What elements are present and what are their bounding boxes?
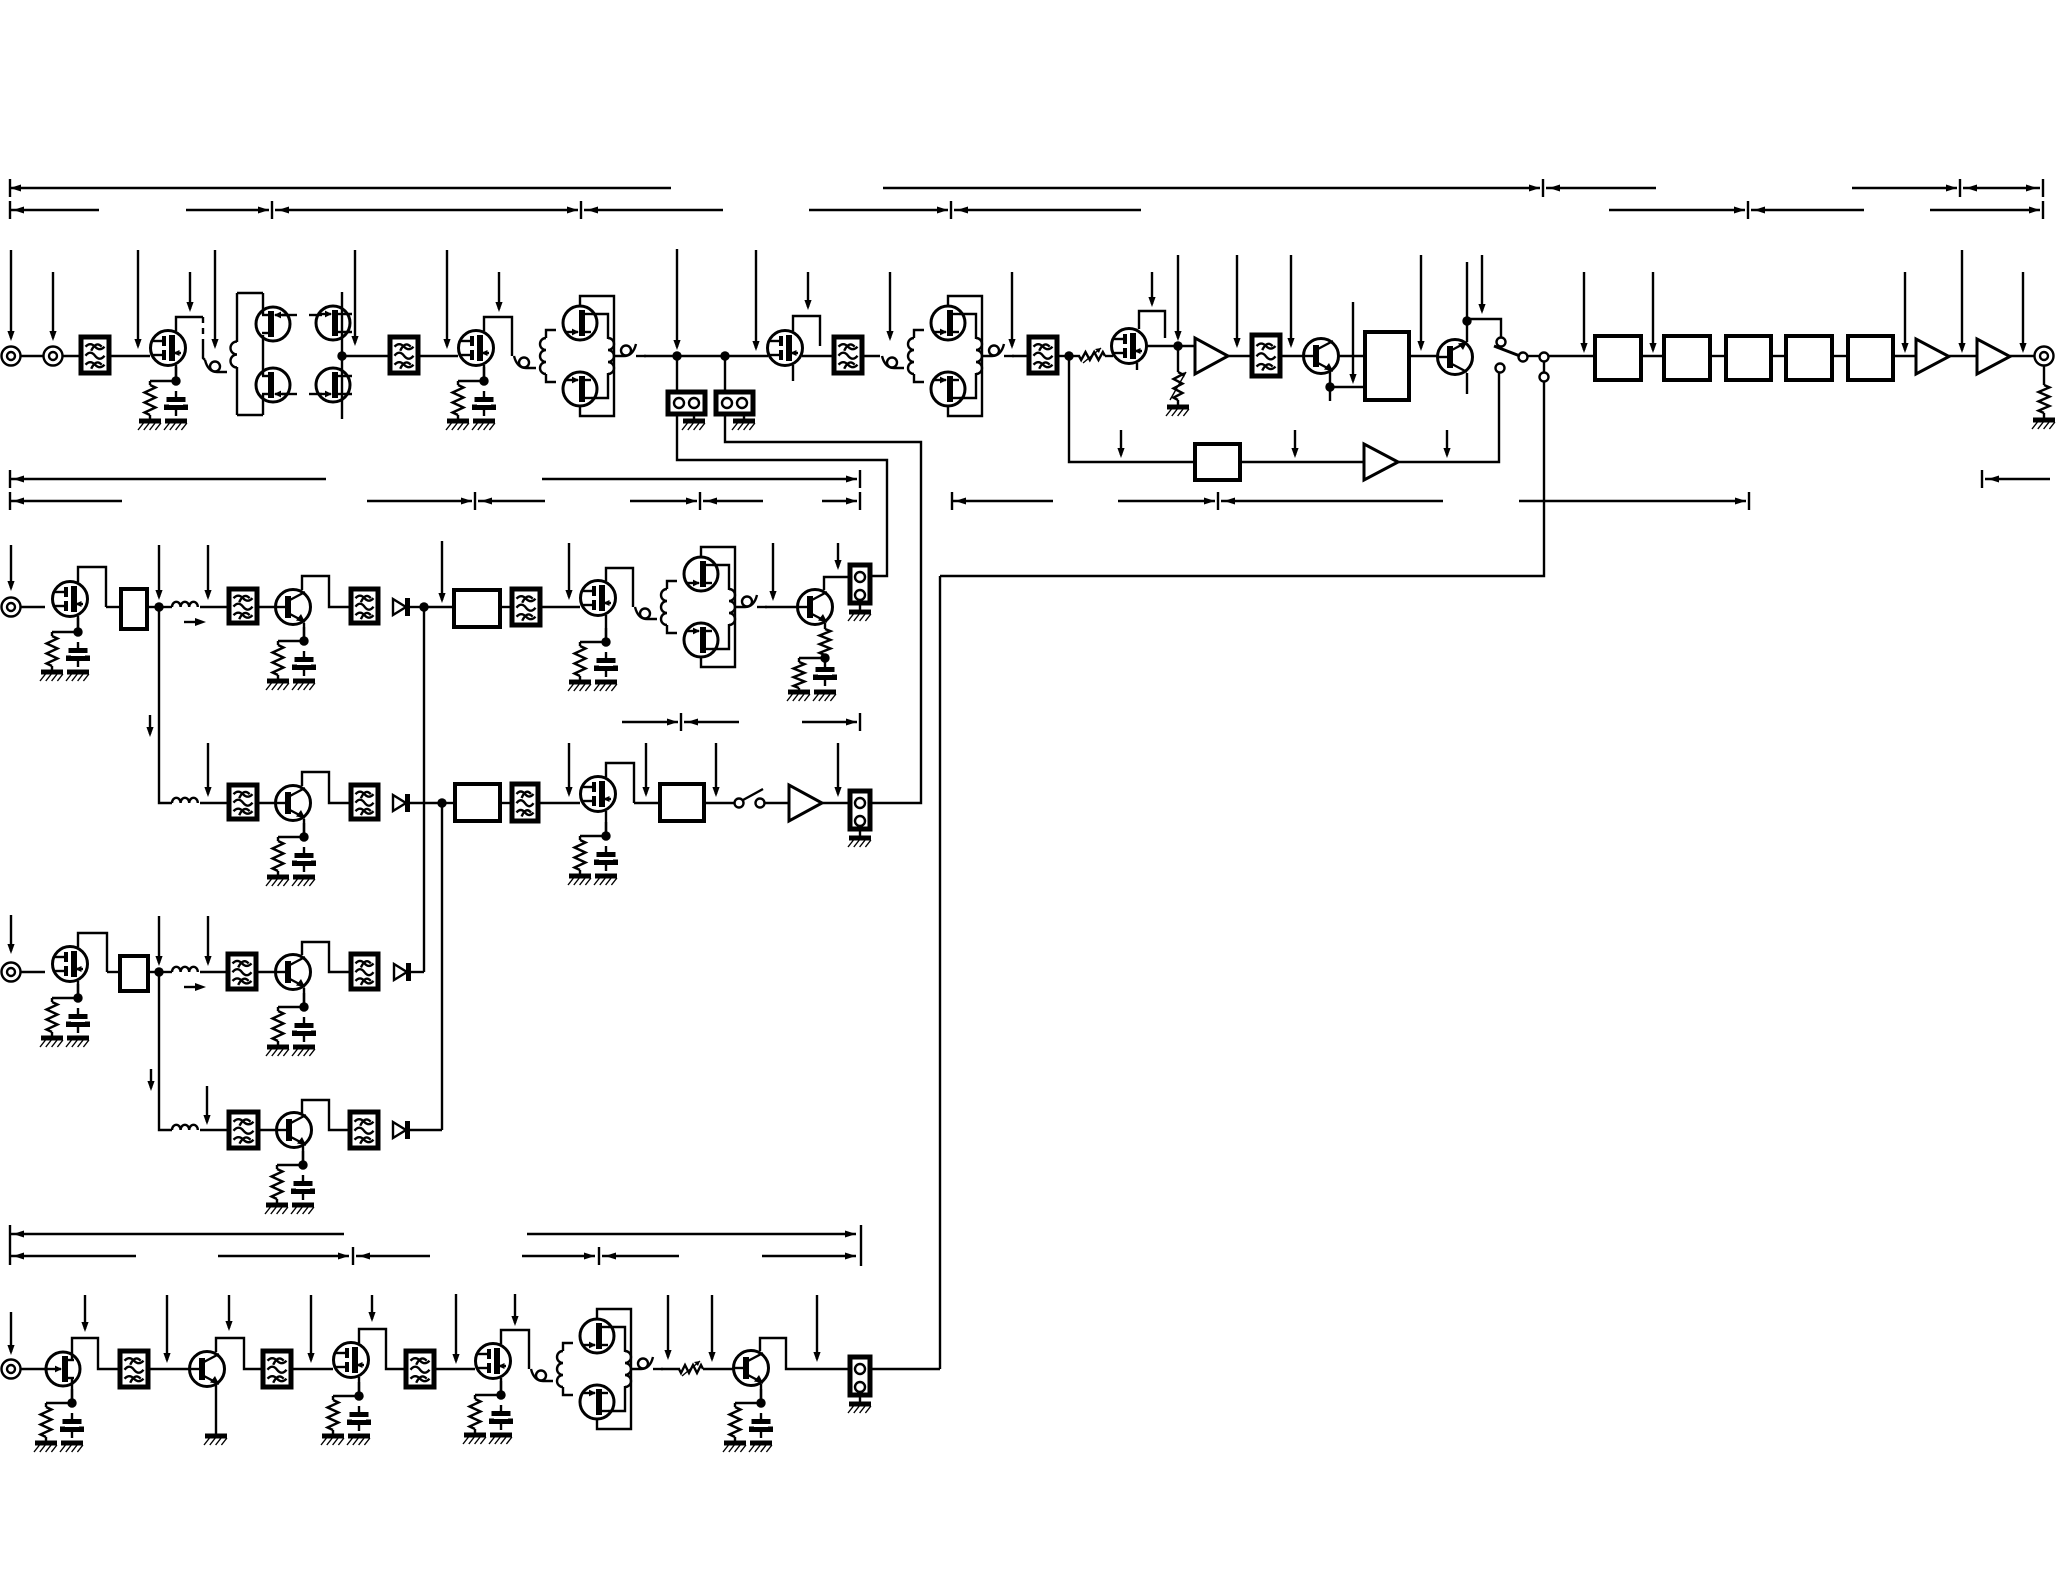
wire T21 outer loop: [597, 1309, 631, 1429]
bandpass filter FL18: [406, 1351, 434, 1387]
wire Q20 source: [71, 1386, 73, 1402]
dimension line: [275, 209, 578, 211]
node 11 bias junction: [67, 1398, 76, 1407]
leader arrow: [186, 272, 193, 312]
ground 7a: [568, 876, 591, 885]
transistor Q9 (AF amp): [1438, 340, 1473, 375]
arrow: [846, 719, 857, 726]
wire FL4 to node C: [1057, 355, 1069, 357]
wire J1 to J2: [21, 355, 44, 357]
wire Q6a drain to T6out: [959, 314, 976, 339]
wire B1 to B2: [1641, 355, 1664, 357]
dimension tick: [271, 201, 273, 219]
node E: [1462, 316, 1471, 325]
node B: [720, 351, 729, 360]
wire Q21a drain to T21out: [608, 1327, 625, 1352]
resistor R10 (variable): [1079, 348, 1105, 363]
arrow: [13, 498, 24, 505]
bandpass filter FL1: [81, 337, 109, 373]
wire Q17 drain: [78, 933, 107, 972]
wire Q25 collector to P7: [760, 1338, 850, 1369]
wire Q14 emitter to R: [824, 623, 826, 629]
dimension tick: [474, 492, 476, 510]
mixer quad left winding bracket: [237, 293, 263, 415]
dimension line: [367, 500, 472, 502]
bandpass filter FL3: [834, 337, 862, 373]
leader arrow: [1174, 255, 1181, 341]
leader arrow 4-7: [511, 1294, 518, 1326]
bandpass filter FL12: [228, 954, 256, 989]
wire FL1 to Q1: [109, 355, 150, 357]
arrow: [10, 185, 21, 192]
wire node F down to 2B chain: [159, 607, 172, 803]
dimension line: [10, 1255, 136, 1257]
leader arrow: [1580, 272, 1587, 353]
arrow: [845, 1253, 856, 1260]
bandpass filter FL10: [351, 785, 378, 819]
wire FL17 to Q22: [291, 1368, 333, 1370]
dimension tick: [859, 470, 861, 488]
transformer T13out secondary coil: [735, 595, 757, 607]
node Q8 emitter: [1325, 382, 1334, 391]
arrow: [258, 207, 269, 214]
wire TX vertical bus: [939, 576, 941, 1369]
JFET Q21a (push-pull upper): [580, 1319, 614, 1353]
transformer T4out secondary coil: [614, 344, 636, 356]
leader arrow: [1148, 272, 1155, 307]
resistor R11 (variable): [1170, 372, 1186, 400]
transformer T6out secondary coil: [982, 344, 1004, 356]
arrow: [1224, 498, 1235, 505]
wire 8 resistor to ground: [51, 1032, 53, 1038]
dual-gate MOSFET Q17: [53, 947, 88, 982]
wire node I down to 3B chain: [159, 972, 172, 1130]
wire Q10 drain: [78, 567, 106, 607]
wire Q5 bias stub: [793, 316, 820, 346]
switch S1 lever: [1494, 346, 1520, 356]
switch S1 contact b: [1496, 364, 1505, 373]
leader arrow: [1443, 430, 1450, 458]
wire Q12 drain to T7: [606, 568, 633, 607]
wire T13 to Q13a gate: [667, 581, 677, 589]
bandpass filter FL15: [350, 1112, 378, 1148]
dimension line: [1963, 187, 2040, 189]
diode D1 (doubler): [393, 598, 408, 616]
wire 4 resistor lead: [277, 641, 279, 645]
arrow: [338, 1253, 349, 1260]
dimension line: [1930, 209, 2040, 211]
wire T6 to Q6a gate: [914, 330, 924, 338]
transformer T6out right winding: [976, 338, 982, 374]
wire Q22 source: [358, 1377, 360, 1395]
ground 8b: [66, 1038, 89, 1047]
wire P1 to P5 (1st LO feed): [677, 414, 887, 576]
wire FL18 to Q23: [434, 1368, 475, 1370]
block B11: [120, 956, 148, 991]
diode D4: [393, 1121, 408, 1139]
coax connector J3 (AF out): [2035, 347, 2054, 366]
dimension line: [703, 500, 763, 502]
leader arrow 2B-4: [712, 743, 719, 797]
wire node H to row3B diode: [441, 803, 443, 1130]
coax connector J4 (LO1 in): [2, 598, 21, 617]
JFET Q21b (push-pull lower): [580, 1385, 614, 1419]
arrow: [706, 498, 717, 505]
arrow: [359, 1253, 370, 1260]
wire B5 to A2: [1893, 355, 1916, 357]
dimension line: [602, 1255, 679, 1257]
transformer T6 primary coil: [882, 356, 904, 368]
JFET Q13a (push-pull upper): [684, 557, 718, 591]
block B6 (squelch): [1195, 444, 1240, 480]
bandpass filter FL2: [390, 337, 418, 373]
wire T6out to FL4: [1012, 355, 1029, 357]
capacitor C12: [350, 1406, 369, 1431]
wire 10 resistor lead: [276, 1165, 278, 1169]
ground 14a: [723, 1443, 746, 1452]
wire node C to B6: [1069, 356, 1195, 462]
capacitor C10: [294, 1175, 313, 1200]
leader arrow J6: [7, 1312, 14, 1355]
arrow: [2026, 185, 2037, 192]
wire FL2 to Q3: [418, 355, 458, 357]
arrow: [13, 207, 24, 214]
wire T13 outer loop: [701, 547, 735, 667]
arrow: [605, 1253, 616, 1260]
wire 11 resistor lead: [45, 1403, 47, 1407]
leader arrow 4-5: [368, 1295, 375, 1322]
dimension line: [1751, 209, 1864, 211]
wire 14 resistor to ground: [734, 1437, 736, 1443]
wire Q19 collector: [302, 1100, 350, 1130]
wire Q15 collector: [302, 772, 351, 803]
dimension tick: [9, 179, 11, 197]
ground 6b: [292, 877, 315, 886]
wire D1 to node G: [409, 606, 424, 608]
dimension line: [584, 209, 723, 211]
bandpass filter FL9: [229, 785, 257, 819]
wire node E to switch S1: [1467, 319, 1501, 337]
wire L3 to FL12: [200, 971, 228, 973]
resistor R5: [575, 646, 586, 676]
ground P6: [848, 838, 871, 847]
diode D2: [393, 794, 408, 812]
resistor R1: [145, 385, 156, 415]
block B1: [1595, 336, 1641, 380]
wire Q2b gate: [282, 393, 297, 395]
wire node to R21: [799, 657, 825, 659]
capacitor C1: [167, 391, 186, 416]
wire B7 to node F: [147, 606, 159, 608]
wire node A to connector P1: [676, 356, 678, 392]
node 14 bias junction: [756, 1398, 765, 1407]
wire Q20 channel leads: [71, 1351, 73, 1386]
wire Q9 collector stub: [1466, 373, 1468, 394]
connector P5: [850, 565, 870, 603]
transistor Q19: [277, 1113, 312, 1148]
transistor Q15: [276, 786, 311, 821]
wire 11 resistor to ground: [45, 1437, 47, 1443]
leader arrow: [804, 272, 811, 310]
leader arrow: [134, 250, 141, 349]
node Q14 bias: [820, 653, 829, 662]
wire T13 to Q13b gate: [667, 625, 677, 633]
leader arrow: [2019, 272, 2026, 353]
leader arrow: [438, 541, 445, 603]
mixer JFET Q2a: [256, 307, 290, 341]
wire Q7 bias stub: [1139, 311, 1165, 338]
leader arrow 3B-1: [203, 1086, 210, 1125]
ground 3a: [40, 672, 63, 681]
wire T4out to node A: [644, 355, 677, 357]
wire Q21b drain to T21out: [608, 1386, 625, 1411]
arrow: [2029, 207, 2040, 214]
transistor Q21: [190, 1352, 225, 1387]
wire A2 to A3: [1949, 355, 1977, 357]
arrow: [1204, 498, 1215, 505]
wire node C to R10: [1069, 355, 1080, 357]
transistor Q18: [276, 955, 311, 990]
section bracket row G: [10, 1247, 856, 1265]
dimension tick: [9, 201, 11, 219]
wire Q12 source: [605, 615, 607, 641]
amplifier A2: [1916, 339, 1949, 374]
section bracket row D: [10, 492, 1749, 510]
node I: [154, 967, 163, 976]
leader arrow: [673, 249, 680, 350]
dimension line: [356, 1255, 430, 1257]
node 9 bias junction: [299, 1002, 308, 1011]
transformer T13 left winding: [661, 589, 667, 625]
leader arrow: [834, 543, 841, 570]
capacitor C14: [752, 1413, 771, 1438]
wire T4out output: [636, 355, 646, 357]
node H: [437, 798, 446, 807]
wire node A to node B: [677, 355, 725, 357]
bandpass filter FL6: [229, 589, 257, 623]
leader arrow 4-2: [163, 1295, 170, 1363]
coax connector J2: [44, 347, 63, 366]
block B8: [454, 590, 500, 627]
connector P3 pin2: [1540, 373, 1549, 382]
wire node G to B8: [424, 606, 454, 608]
connector P3 pin1: [1540, 353, 1549, 362]
dimension line: [1546, 187, 1656, 189]
wire R10 to Q7: [1105, 355, 1113, 357]
connector P6: [850, 791, 870, 829]
wire FL8 to Q12: [540, 606, 580, 608]
capacitor C3: [69, 642, 88, 667]
block B10: [660, 784, 704, 821]
JFET Q6a (push-pull upper): [931, 306, 965, 340]
wire J2 to FL1: [63, 355, 82, 357]
amplifier A3: [1977, 339, 2010, 374]
dimension tick: [699, 492, 701, 510]
coax connector J5 (LO2 in): [2, 963, 21, 982]
ground 8a: [40, 1038, 63, 1047]
arrow: [1966, 185, 1977, 192]
wire L2 to FL9: [200, 802, 229, 804]
wire node D down: [1177, 346, 1179, 372]
dimension tick: [1748, 492, 1750, 510]
wire Q14 collector to P5: [824, 577, 850, 590]
wire 6 source to junction: [303, 823, 305, 837]
arrow: [13, 476, 24, 483]
dimension line: [809, 209, 948, 211]
node F: [154, 602, 163, 611]
resistor R7: [575, 840, 586, 870]
dimension line: [1985, 478, 2050, 480]
JFET Q4a (push-pull upper): [563, 306, 597, 340]
dimension line: [1118, 500, 1215, 502]
switch S1 pole: [1519, 353, 1528, 362]
mixer quad left rail: [262, 293, 264, 415]
wire B8 to FL8: [500, 606, 512, 608]
ground 7b: [594, 876, 617, 885]
wire 11 source to junction: [71, 1389, 73, 1403]
node 5 bias junction: [601, 637, 610, 646]
bandpass filter FL7: [351, 589, 378, 623]
wire T13out to Q14: [765, 606, 797, 608]
wire R21 to ground: [798, 688, 800, 692]
wire B9 to FL11: [500, 802, 512, 804]
wire Q21 emitter: [215, 1385, 217, 1434]
resistor R8: [47, 1002, 58, 1032]
wire node B to connector P2: [724, 356, 726, 392]
transformer T21out secondary coil: [631, 1357, 653, 1369]
wire Q16 drain: [606, 763, 634, 803]
ground R12: [2032, 420, 2055, 429]
ground 1a: [138, 421, 161, 430]
leader arrow 2B-3: [642, 743, 649, 797]
leader arrow J5: [7, 915, 14, 954]
resistor R13: [470, 1399, 481, 1429]
wire FL16 to Q21: [148, 1368, 189, 1370]
wire Q15 emitter: [303, 819, 305, 836]
wire 10 source to junction: [302, 1151, 304, 1165]
wire P3 link: [1543, 362, 1545, 372]
leader arrow J4: [7, 545, 14, 591]
leader arrow: [204, 545, 211, 600]
bandpass filter FL4: [1029, 337, 1057, 373]
dimension line: [630, 500, 697, 502]
transformer T4out right winding: [608, 338, 614, 374]
wire 7 junction to resistor: [580, 835, 606, 837]
arrow: [567, 207, 578, 214]
amplifier A5: [789, 785, 822, 821]
ground 3b: [66, 672, 89, 681]
wire Q2a gate: [282, 314, 297, 316]
dimension line: [622, 721, 678, 723]
dimension line: [527, 1233, 856, 1235]
leader arrow: [49, 272, 56, 341]
dimension line: [1852, 187, 1957, 189]
leader arrow: [1478, 255, 1485, 314]
wire node F to L1: [159, 606, 172, 608]
node 1 bias junction: [171, 376, 180, 385]
wire bias dashed segment: [202, 317, 204, 344]
wire A5 to P6: [822, 802, 850, 804]
leader arrow: [769, 543, 776, 601]
bandpass filter FL8: [512, 589, 540, 625]
ground 1b: [164, 421, 187, 430]
inductor L3: [172, 967, 198, 972]
wire T4 to Q4b gate: [546, 374, 556, 382]
wire 3 resistor lead: [51, 632, 53, 636]
leader arrow: [752, 250, 759, 351]
capacitor C20: [816, 661, 835, 686]
bandpass filter FL11: [512, 784, 538, 821]
capacitor C4: [295, 651, 314, 676]
ground C20: [813, 692, 836, 701]
wire Q20 gate lead: [44, 1368, 49, 1370]
wire FL6 to Q11: [257, 606, 275, 608]
transformer T6 left winding: [908, 338, 914, 374]
node C: [1064, 351, 1073, 360]
wire 7 resistor to ground: [579, 870, 581, 876]
wire 11 junction to resistor: [46, 1402, 72, 1404]
arrow: [686, 498, 697, 505]
wire T21out to R30: [661, 1368, 680, 1370]
section bracket row E: [622, 713, 860, 731]
ground 2a: [446, 421, 469, 430]
capacitor C13: [492, 1405, 511, 1430]
mixer JFET Q2d: [316, 368, 350, 402]
wire P2 pin2 to ground: [743, 414, 745, 421]
wire 5 junction to resistor: [580, 641, 606, 643]
wire 10 resistor to ground: [276, 1199, 278, 1205]
ground R21: [787, 692, 810, 701]
dimension tick: [2042, 179, 2044, 197]
wire J5 to Q17: [21, 971, 46, 973]
leader arrow: [1008, 272, 1015, 349]
dimension line: [10, 478, 326, 480]
mixer quad right rail: [342, 292, 352, 419]
wire node H to B9: [442, 802, 455, 804]
wire node stub: [1329, 387, 1331, 401]
dimension tick: [598, 1247, 600, 1265]
capacitor C6: [295, 847, 314, 872]
section bracket row C: [10, 470, 2050, 488]
dimension line: [10, 187, 671, 189]
wire Q11 collector: [302, 576, 351, 607]
transformer T13out right winding: [729, 589, 735, 625]
resistor R12: [2039, 385, 2050, 413]
block B3: [1726, 336, 1771, 380]
node mixer output: [337, 351, 346, 360]
wire Q4a drain to T4out: [591, 314, 608, 339]
leader arrow: [1291, 430, 1298, 458]
dimension tick: [9, 492, 11, 510]
block B4: [1786, 336, 1832, 380]
wire 2 resistor to ground: [457, 415, 459, 421]
wire node G to row3A diode: [423, 607, 425, 972]
resistor R11: [41, 1407, 52, 1437]
wire R30 to Q25: [703, 1368, 733, 1370]
dimension tick: [352, 1247, 354, 1265]
wire node D to A1: [1178, 345, 1195, 347]
ground P5: [848, 612, 871, 621]
ground 9a: [266, 1047, 289, 1056]
arrow: [845, 1231, 856, 1238]
leader arrow: [1233, 255, 1240, 348]
wire R20 to node: [824, 655, 826, 658]
inductor L2: [172, 798, 198, 803]
dimension line: [10, 209, 99, 211]
wire T4 outer loop: [580, 296, 614, 416]
wire Q16 to B10: [634, 802, 660, 804]
wire node to U1 pin2: [1330, 386, 1365, 388]
